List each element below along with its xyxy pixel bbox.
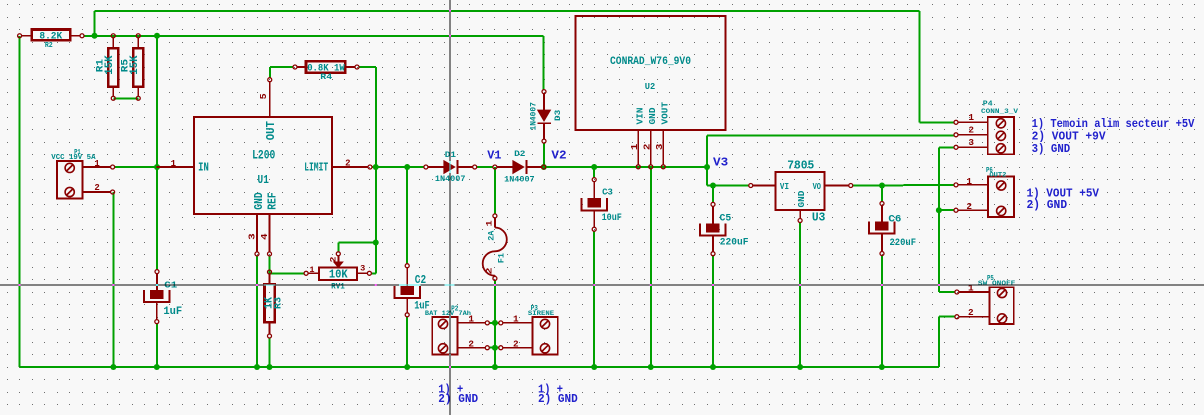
svg-text:1N4007: 1N4007 bbox=[530, 102, 539, 130]
svg-text:R3: R3 bbox=[272, 297, 283, 309]
svg-text:220uF: 220uF bbox=[720, 238, 749, 249]
svg-text:8.2K: 8.2K bbox=[39, 30, 63, 42]
svg-text:2) GND: 2) GND bbox=[538, 392, 578, 406]
svg-text:2) GND: 2) GND bbox=[438, 392, 478, 406]
svg-text:15K: 15K bbox=[104, 55, 116, 75]
svg-text:1uF: 1uF bbox=[163, 306, 182, 318]
svg-text:2: 2 bbox=[968, 125, 974, 136]
svg-text:BAT 12V 7Ah: BAT 12V 7Ah bbox=[425, 310, 471, 317]
svg-text:2: 2 bbox=[643, 144, 653, 151]
svg-text:V1: V1 bbox=[487, 149, 501, 163]
svg-text:1: 1 bbox=[630, 143, 640, 150]
svg-text:2: 2 bbox=[968, 307, 974, 318]
svg-text:3: 3 bbox=[360, 263, 365, 273]
svg-text:D2: D2 bbox=[514, 149, 525, 159]
svg-text:2: 2 bbox=[485, 267, 495, 274]
svg-text:1: 1 bbox=[513, 314, 519, 325]
svg-text:VIN: VIN bbox=[636, 108, 646, 125]
svg-text:7805: 7805 bbox=[787, 159, 814, 173]
svg-text:VO: VO bbox=[813, 181, 822, 192]
svg-text:F1: F1 bbox=[498, 253, 507, 263]
svg-text:U1: U1 bbox=[258, 173, 269, 187]
svg-text:C5: C5 bbox=[720, 213, 732, 224]
svg-text:1: 1 bbox=[94, 159, 100, 169]
svg-text:5: 5 bbox=[259, 93, 269, 99]
svg-text:3) GND: 3) GND bbox=[1032, 142, 1071, 156]
svg-text:2: 2 bbox=[513, 338, 519, 349]
svg-text:OUT: OUT bbox=[264, 121, 278, 140]
svg-text:U3: U3 bbox=[812, 211, 826, 225]
svg-text:V3: V3 bbox=[713, 155, 728, 169]
svg-text:VI: VI bbox=[780, 181, 789, 192]
svg-text:2) GND: 2) GND bbox=[1027, 198, 1068, 212]
svg-text:2: 2 bbox=[345, 158, 350, 168]
svg-text:V2: V2 bbox=[551, 149, 566, 163]
svg-text:C6: C6 bbox=[888, 215, 901, 226]
svg-text:D3: D3 bbox=[553, 110, 563, 121]
svg-text:15K: 15K bbox=[129, 55, 141, 75]
svg-text:1: 1 bbox=[171, 159, 177, 169]
svg-text:R4: R4 bbox=[320, 73, 332, 82]
svg-text:3: 3 bbox=[968, 137, 974, 148]
svg-text:GND: GND bbox=[252, 192, 266, 209]
svg-text:VCC 19V 5A: VCC 19V 5A bbox=[51, 154, 96, 162]
svg-text:3: 3 bbox=[655, 144, 665, 151]
svg-text:1: 1 bbox=[309, 265, 314, 275]
svg-text:U2: U2 bbox=[645, 81, 656, 92]
svg-text:VOUT: VOUT bbox=[661, 101, 671, 124]
svg-text:REF: REF bbox=[265, 192, 279, 209]
svg-text:RV1: RV1 bbox=[331, 283, 345, 292]
svg-text:CONN_3_V: CONN_3_V bbox=[981, 108, 1018, 115]
svg-text:LIMIT: LIMIT bbox=[304, 161, 328, 175]
svg-text:R2: R2 bbox=[45, 42, 53, 50]
svg-text:C3: C3 bbox=[602, 187, 613, 198]
svg-text:3: 3 bbox=[248, 233, 258, 240]
svg-text:1: 1 bbox=[468, 314, 474, 325]
svg-text:1: 1 bbox=[485, 220, 495, 226]
svg-text:2: 2 bbox=[329, 257, 339, 263]
svg-text:1N4007: 1N4007 bbox=[504, 175, 535, 184]
svg-text:1: 1 bbox=[968, 112, 974, 123]
svg-text:OUT2: OUT2 bbox=[989, 171, 1006, 178]
svg-text:2: 2 bbox=[966, 201, 972, 212]
svg-text:2A: 2A bbox=[488, 231, 497, 241]
svg-text:GND: GND bbox=[648, 107, 658, 125]
svg-text:220uF: 220uF bbox=[890, 238, 917, 249]
svg-text:2: 2 bbox=[468, 338, 474, 349]
svg-text:IN: IN bbox=[198, 161, 209, 175]
svg-text:CONRAD_W76_9V0: CONRAD_W76_9V0 bbox=[610, 56, 691, 68]
svg-text:10uF: 10uF bbox=[602, 213, 622, 224]
svg-text:1: 1 bbox=[968, 282, 974, 293]
svg-text:GND: GND bbox=[796, 190, 807, 207]
svg-text:10K: 10K bbox=[329, 268, 348, 282]
svg-text:2: 2 bbox=[94, 183, 99, 193]
svg-text:L200: L200 bbox=[252, 149, 275, 163]
svg-text:1: 1 bbox=[966, 176, 972, 187]
svg-text:SIRENE: SIRENE bbox=[528, 310, 555, 317]
svg-text:SW ONOFF: SW ONOFF bbox=[978, 280, 1016, 287]
svg-text:4: 4 bbox=[260, 233, 270, 240]
